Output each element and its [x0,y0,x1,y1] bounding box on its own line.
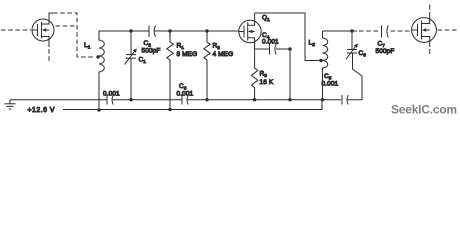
svg-text:+12.6 V: +12.6 V [28,107,55,114]
svg-text:L1: L1 [84,42,91,50]
svg-text:500pF: 500pF [376,48,395,55]
svg-text:16 K: 16 K [260,79,274,86]
capacitor 0.001 bypass (L1) [107,95,113,105]
svg-text:4 MEG: 4 MEG [213,51,234,58]
capacitor C4 [255,44,292,101]
wire (tuned-circuit top line) [99,30,239,32]
svg-text:R2: R2 [213,43,221,51]
svg-text:R1: R1 [177,43,185,51]
wire (right dashed continuation) [438,29,460,31]
capacitor C7 [382,26,389,38]
capacitor C5 [342,95,348,105]
transistor (previous stage, partial) [32,13,54,47]
wire (bulk dashed) [56,25,77,27]
inductor L2 [321,31,328,101]
wire (Q1 drain to L2 tap) [255,13,323,62]
wire (source dashed down) [429,49,431,55]
svg-text:C6: C6 [359,50,367,58]
wire (gate dashed input) [1,29,31,31]
svg-text:0.001: 0.001 [322,81,339,88]
svg-text:0.001: 0.001 [177,91,194,98]
svg-text:0.001: 0.001 [262,39,279,46]
wire (L2 top line) [323,29,358,32]
svg-text:500pF: 500pF [142,48,161,55]
wire (ground bus) [10,76,362,100]
capacitor C2 [149,26,156,38]
ground [5,100,16,109]
resistor R3 [251,49,257,101]
svg-text:R3: R3 [260,71,268,79]
inductor L1 [97,31,104,112]
wire (drain dashed up) [429,5,431,10]
wire (drain dashed to tap) [53,13,95,57]
resistor R2 [204,29,210,101]
transistor Q1 [239,13,261,49]
transistor (next stage, partial) [412,12,437,47]
wire (dashed to C7) [359,30,379,32]
node tap on L1 [96,55,99,58]
svg-text:SeekIC.com: SeekIC.com [391,103,457,117]
wire (source dashed continuation) [48,49,50,61]
wire (+12.6V rail) [63,101,322,110]
capacitor C1 (variable) [125,29,137,101]
svg-text:L2: L2 [309,40,316,48]
svg-text:0.001: 0.001 [103,91,120,98]
svg-text:C1: C1 [139,57,147,65]
resistor R1 [167,29,173,111]
svg-text:8 MEG: 8 MEG [177,51,198,58]
svg-text:Q1: Q1 [262,15,270,23]
capacitor C6 (variable) [346,31,362,100]
capacitor C3 [182,95,188,105]
wire (dashed C7 to gate) [391,30,411,32]
